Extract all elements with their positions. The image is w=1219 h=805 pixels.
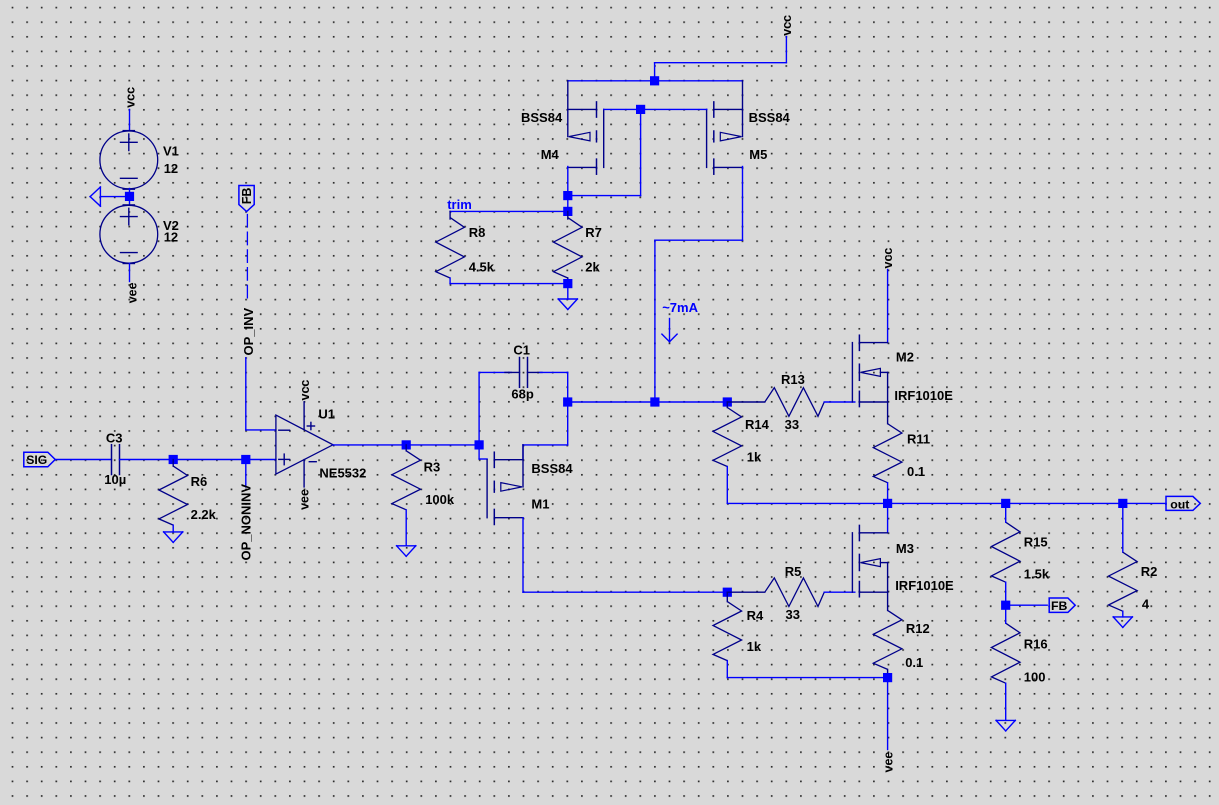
wire R15 top lead [1005, 503, 1007, 522]
resistor R6 [159, 466, 188, 525]
svg-text:C3: C3 [106, 430, 123, 445]
svg-text:2k: 2k [585, 260, 600, 275]
wire C1 to node E [540, 372, 568, 402]
wire SIG to C3 [55, 459, 111, 461]
svg-text:M2: M2 [896, 350, 914, 365]
annotation current arrow [662, 319, 677, 342]
svg-text:OP_INV: OP_INV [241, 307, 256, 355]
wire R16 to ground [1005, 683, 1007, 720]
transistor M5 BSS84 [707, 81, 743, 174]
node R7-R8 ground [563, 279, 572, 288]
wire R13 left lead [727, 401, 765, 403]
wire R12 bottom lead [887, 669, 889, 677]
svg-text:vcc: vcc [123, 87, 137, 108]
transistor M2 IRF1010E [852, 335, 887, 406]
node H (output center) [883, 499, 892, 508]
wire node E to M1 source [523, 402, 568, 460]
wire M3 source to R12 [887, 592, 889, 610]
node V1-V2 junction [125, 192, 134, 201]
wire M1 drain [523, 518, 727, 593]
wire bias bus [568, 401, 728, 403]
wire ground stem [100, 196, 125, 198]
svg-text:33: 33 [786, 607, 800, 622]
node M4 drain [563, 191, 572, 200]
svg-text:M5: M5 [749, 147, 767, 162]
wire R14 to rail [726, 467, 728, 504]
svg-text:BSS84: BSS84 [531, 461, 573, 476]
svg-text:M4: M4 [541, 147, 560, 162]
capacitor C3 [112, 445, 120, 475]
wire OP_INV to op-amp inverting input [246, 358, 276, 430]
wire R8 top lead [449, 211, 451, 219]
svg-text:R12: R12 [906, 621, 930, 636]
node K (R15 top) [1001, 499, 1010, 508]
wire R14 top lead [726, 402, 728, 408]
voltage source V2 12 [100, 205, 179, 264]
node J (R4/R12/vee) [883, 673, 892, 682]
node trim junction [563, 207, 572, 216]
ground below R3 [397, 546, 416, 557]
wire op-amp output [333, 444, 479, 446]
wire R7 bottom lead [567, 278, 569, 284]
ground below R7 [558, 299, 577, 310]
svg-text:R3: R3 [424, 460, 441, 475]
resistor R3 [392, 451, 421, 510]
dashed annotation line FB to OP_INV [246, 215, 248, 299]
svg-text:0.1: 0.1 [905, 655, 923, 670]
op-amp U1 NE5532 [276, 402, 333, 487]
port flag SIG [24, 452, 55, 467]
svg-text:4: 4 [1142, 597, 1150, 612]
wire gate tie down [568, 109, 641, 195]
wire V2 to vee [129, 263, 131, 281]
wire R2 to ground [1122, 611, 1124, 617]
wire R6 to ground [172, 525, 174, 532]
node G (R13/R14) [723, 397, 732, 406]
node D (C1 left / M1 gate) [475, 440, 484, 449]
svg-text:vcc: vcc [298, 380, 312, 401]
wire trim [450, 210, 568, 212]
svg-text:NE5532: NE5532 [319, 465, 366, 480]
svg-text:R15: R15 [1024, 534, 1048, 549]
wire vcc feed [655, 37, 787, 81]
wire FB tap [1006, 604, 1047, 606]
wire M4 drain [567, 167, 569, 212]
wire R15 bottom lead [1005, 582, 1007, 605]
resistor R8 [436, 218, 465, 278]
svg-text:M1: M1 [531, 497, 549, 512]
svg-text:R16: R16 [1024, 636, 1048, 651]
wire node A to op-amp noninverting input [173, 459, 276, 461]
svg-text:FB: FB [1051, 599, 1068, 613]
svg-text:R14: R14 [745, 417, 770, 432]
svg-text:R6: R6 [191, 474, 208, 489]
svg-text:R5: R5 [785, 564, 802, 579]
svg-text:out: out [1170, 498, 1189, 512]
wire R5 left lead [727, 591, 765, 593]
svg-text:68p: 68p [511, 387, 533, 402]
node gate rail [636, 105, 645, 114]
node C (R3 tap) [402, 440, 411, 449]
wire vcc to V1 [129, 110, 131, 131]
ground at V1-V2 junction [90, 187, 100, 206]
voltage source V1 12 [100, 131, 179, 190]
svg-text:R11: R11 [907, 431, 930, 446]
wire M2 source to R11 [887, 402, 889, 424]
svg-text:R2: R2 [1141, 564, 1158, 579]
ground below R2 [1113, 617, 1132, 628]
wire top rail M4-M5 [568, 80, 743, 82]
svg-text:SIG: SIG [26, 453, 47, 467]
resistor R7 [554, 218, 583, 278]
wire R3 top lead [405, 445, 407, 451]
wire C1 left lead [505, 371, 520, 373]
svg-text:0.1: 0.1 [907, 464, 925, 479]
transistor M1 BSS84 [487, 445, 523, 525]
wire R8 bottom [450, 278, 568, 284]
svg-text:R13: R13 [781, 372, 805, 387]
port flag out [1166, 496, 1200, 511]
node A (C3/R6) [169, 455, 178, 464]
ground below R6 [164, 532, 183, 543]
svg-text:OP_NONINV: OP_NONINV [239, 484, 254, 561]
resistor R4 [713, 602, 742, 661]
node E (C1 right / bus) [563, 397, 572, 406]
wire vcc to M2 drain [887, 270, 889, 343]
wire C1 right lead [528, 371, 543, 373]
svg-text:vee: vee [125, 282, 139, 303]
svg-text:10µ: 10µ [104, 472, 126, 487]
wire M5 drain to bus [655, 167, 743, 403]
wire rail to M3 drain [887, 503, 889, 532]
wire R4 bottom [727, 661, 887, 678]
resistor R15 [991, 522, 1020, 582]
svg-text:R4: R4 [747, 608, 764, 623]
wire C3 to node A [120, 459, 174, 461]
wire node D up to C1 [479, 372, 511, 445]
svg-text:vcc: vcc [780, 15, 794, 36]
wire to mirror ground [567, 284, 569, 299]
port flag FB (right) [1049, 598, 1075, 613]
node F (mirror output) [650, 397, 659, 406]
svg-text:12: 12 [164, 229, 178, 244]
svg-text:12: 12 [164, 161, 178, 176]
svg-text:vee: vee [298, 489, 312, 510]
transistor M4 BSS84 [568, 81, 604, 174]
ground below R16 [996, 720, 1015, 731]
capacitor C1 [520, 358, 528, 388]
wire R13 to M2 gate [824, 401, 855, 403]
svg-text:4.5k: 4.5k [469, 260, 495, 275]
net flag FB (feedback, top) [239, 186, 254, 212]
svg-text:2.2k: 2.2k [191, 507, 217, 522]
svg-text:R7: R7 [585, 225, 602, 240]
wire R4 top lead [726, 592, 728, 601]
transistor M3 IRF1010E [852, 525, 887, 596]
svg-text:trim: trim [447, 197, 472, 212]
resistor R5 [765, 578, 824, 607]
resistor R13 [765, 388, 824, 417]
wire R5 to M3 gate [824, 591, 855, 593]
wire R6 bottom lead [172, 460, 174, 467]
node top rail [650, 76, 659, 85]
wire to vee [887, 678, 889, 750]
svg-text:~7mA: ~7mA [662, 300, 698, 315]
wire output rail [727, 502, 1166, 504]
svg-text:1k: 1k [747, 639, 762, 654]
svg-text:U1: U1 [318, 407, 335, 422]
wire R11 to rail [887, 483, 889, 504]
svg-text:100k: 100k [425, 492, 455, 507]
svg-text:V1: V1 [163, 144, 179, 159]
wire gate rail M4-M5 [604, 108, 707, 110]
resistor R2 [1109, 552, 1138, 611]
wire R3 to ground [405, 510, 407, 546]
resistor R11 [873, 424, 902, 483]
node L (FB tap) [1001, 601, 1010, 610]
svg-text:FB: FB [240, 188, 254, 205]
node B (OP_NONINV tap) [241, 455, 250, 464]
svg-text:vcc: vcc [881, 248, 895, 269]
resistor R12 [873, 610, 902, 669]
node I (R5/R4) [723, 588, 732, 597]
svg-text:33: 33 [785, 417, 799, 432]
wire OP_NONINV stub [245, 460, 247, 488]
svg-text:IRF1010E: IRF1010E [895, 578, 954, 593]
svg-text:1k: 1k [747, 449, 762, 464]
svg-text:BSS84: BSS84 [521, 110, 563, 125]
wire node D to M1 gate [479, 445, 487, 459]
wire R16 top lead [1005, 605, 1007, 623]
resistor R16 [991, 623, 1020, 683]
svg-text:100: 100 [1024, 670, 1046, 685]
svg-text:1.5k: 1.5k [1024, 567, 1050, 582]
svg-text:R8: R8 [469, 225, 486, 240]
wire V1 to V2 junction [129, 189, 131, 206]
svg-text:vee: vee [881, 752, 895, 773]
svg-text:IRF1010E: IRF1010E [894, 388, 953, 403]
resistor R14 [713, 408, 742, 467]
svg-text:BSS84: BSS84 [749, 110, 791, 125]
svg-text:M3: M3 [896, 541, 914, 556]
node M (R2 tap) [1118, 499, 1127, 508]
wire R7 top lead [567, 211, 569, 219]
svg-text:C1: C1 [513, 343, 530, 358]
wire R2 top [1122, 503, 1124, 552]
